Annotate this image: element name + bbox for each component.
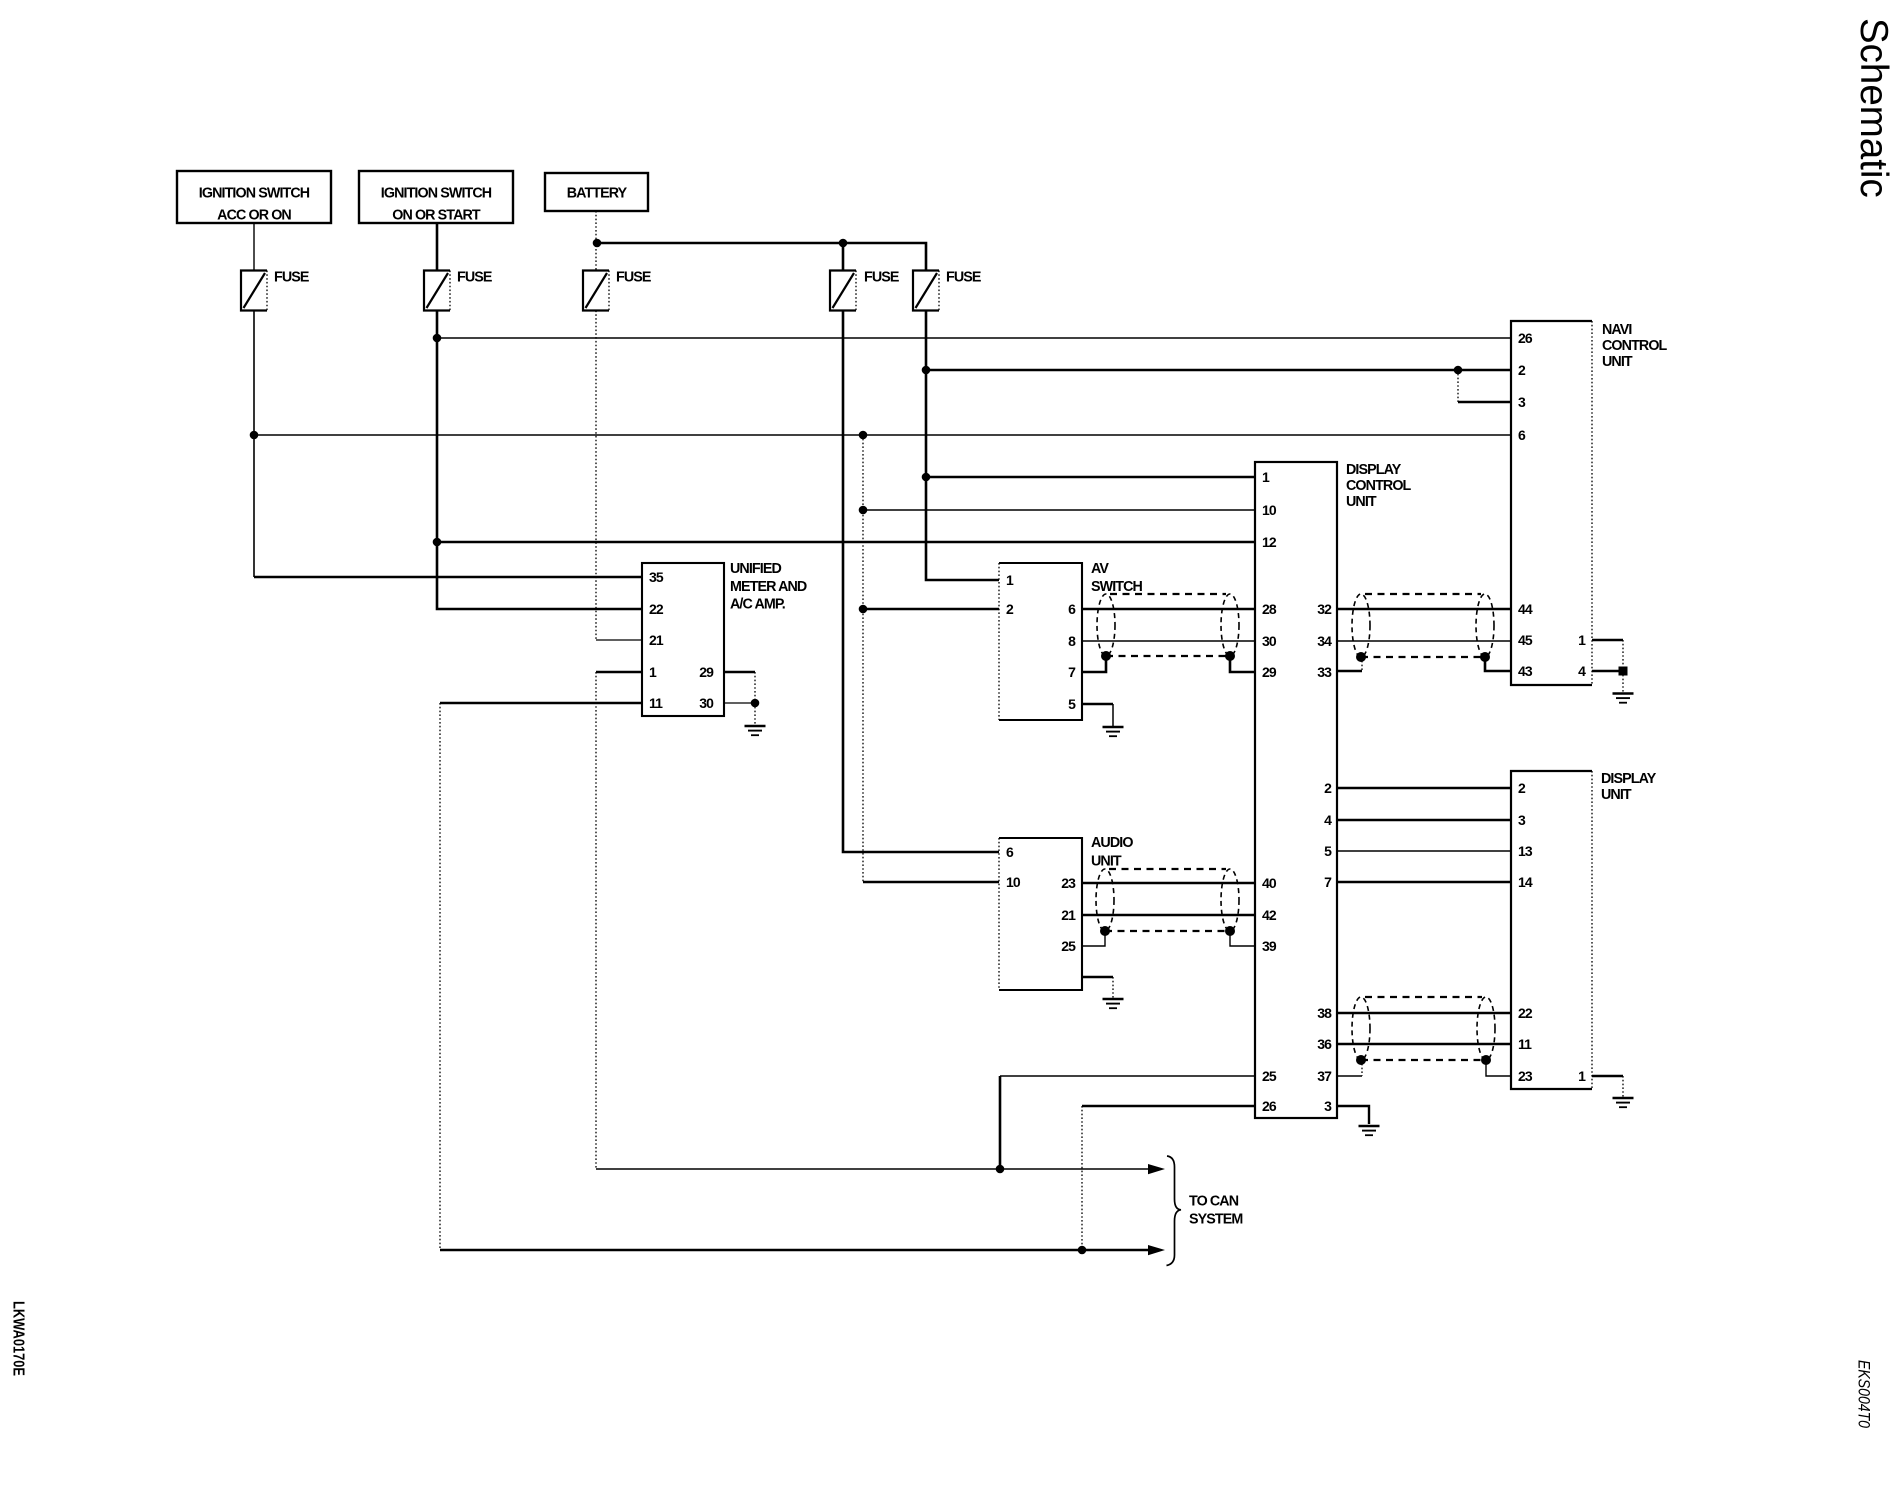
svg-text:44: 44 (1518, 601, 1533, 617)
wire: F3 battery output down x=596 (dotted) then right to UMA pin 21 (595, 311, 597, 641)
svg-text:11: 11 (649, 695, 663, 711)
svg-text:3: 3 (1518, 394, 1526, 410)
wire: AUDIO 21 to DCU 42 y=915 (1082, 914, 1255, 917)
svg-text:FUSE: FUSE (946, 269, 981, 285)
box: IGNITION SWITCH ACC OR ON (177, 171, 331, 224)
svg-text:2: 2 (1006, 601, 1014, 617)
svg-text:7: 7 (1324, 874, 1332, 890)
svg-text:LKWA0170E: LKWA0170E (10, 1301, 27, 1376)
ground: AUDIO UNIT (1103, 977, 1124, 1008)
wire: DCU 2 to DU 2 y=788 (1337, 787, 1511, 790)
svg-text:21: 21 (649, 632, 664, 648)
ground: NAVI CONTROL UNIT (1613, 671, 1634, 703)
wire: AV 8 to DCU 30 y=641 (1082, 640, 1255, 642)
fuse F2 (IGN ON) (424, 269, 492, 310)
wire: NAVI pin 4 to ground junction (1592, 670, 1623, 673)
junction: F2 feed / NAVI-26 line (437,338) (433, 334, 442, 343)
wire: net y=402 to NAVI pin 3 (1458, 401, 1511, 404)
box: AUDIO UNIT (999, 835, 1133, 990)
svg-text:29: 29 (699, 664, 714, 680)
arrow: CAN line 1 (1148, 1164, 1165, 1174)
ground: UMA (745, 703, 766, 735)
svg-text:34: 34 (1317, 633, 1332, 649)
label: TO CAN SYSTEM (1189, 1194, 1242, 1228)
svg-text:25: 25 (1061, 938, 1076, 954)
box: DISPLAY CONTROL UNIT (1255, 462, 1412, 1118)
junction: x=863 branch at NAVI-6 line (863,435) (859, 431, 868, 440)
wire: CAN line 2 y=1250 (440, 1249, 1150, 1252)
junction: battery bus at battery feed (597,243) (593, 239, 602, 248)
arrow: CAN line 2 (1148, 1245, 1165, 1255)
svg-text:4: 4 (1578, 663, 1586, 679)
wire: DCU pin 37 stub to shield drain (1337, 1075, 1362, 1077)
svg-text:12: 12 (1262, 534, 1277, 550)
box: NAVI CONTROL UNIT (1511, 321, 1668, 685)
wire: battery feed down to fuse F3 (dotted thin) (595, 211, 597, 271)
svg-text:32: 32 (1317, 601, 1332, 617)
svg-text:43: 43 (1518, 663, 1533, 679)
svg-text:14: 14 (1518, 874, 1533, 890)
wire: DCU pin 33 stub to shield drain (1337, 670, 1362, 673)
svg-text:ON OR START: ON OR START (392, 208, 481, 224)
wire: DCU 5 to DU 13 y=851 (1337, 850, 1511, 852)
wire: F2 output down x=437 then right to UMA pin 22 (437, 311, 642, 610)
wire: net y=370 F5 to NAVI pin 2 (926, 369, 1511, 372)
svg-text:1: 1 (1578, 632, 1586, 648)
wire: NAVI pin 43 from shield drain (1485, 657, 1511, 671)
svg-text:FUSE: FUSE (616, 269, 651, 285)
wire: DCU 38 to DU 22 y=1013 (1337, 1012, 1511, 1015)
svg-text:13: 13 (1518, 843, 1533, 859)
svg-text:23: 23 (1061, 875, 1076, 891)
svg-text:39: 39 (1262, 938, 1277, 954)
junction: DCU-25 drop on CAN line 1 (1000,1169) (996, 1165, 1005, 1174)
wire: AUDIO ground lead (1082, 976, 1113, 979)
box: UNIFIED METER AND A/C AMP. (642, 561, 807, 716)
svg-text:ACC OR ON: ACC OR ON (217, 208, 291, 224)
wire: AV pin 5 to ground (1082, 703, 1113, 706)
svg-text:AUDIO: AUDIO (1091, 835, 1133, 851)
wire: net y=435 F1 to NAVI pin 6 (254, 434, 1511, 436)
svg-text:FUSE: FUSE (457, 269, 492, 285)
wire: DCU 4 to DU 3 y=820 (1337, 819, 1511, 822)
svg-text:A/C AMP.: A/C AMP. (730, 597, 785, 613)
svg-text:25: 25 (1262, 1068, 1277, 1084)
svg-text:29: 29 (1262, 664, 1277, 680)
junction: F2 feed / DCU-12 line (437,542) (433, 538, 442, 547)
wire: net y=338 F2 to NAVI pin 26 (437, 337, 1511, 339)
wire: DU pin 1 to ground (1592, 1075, 1623, 1078)
junction: battery bus at fuse F4 drop (843,243) (839, 239, 848, 248)
wire: DCU pin 29 to shield drain (1230, 656, 1255, 672)
svg-text:SYSTEM: SYSTEM (1189, 1212, 1242, 1228)
junction: NAVI 1/4 ground (1623,671) (1619, 667, 1628, 676)
svg-text:45: 45 (1518, 632, 1533, 648)
wire: F1 output down x=254 then right to UMA pin 35 (253, 311, 255, 578)
svg-text:METER AND: METER AND (730, 579, 807, 595)
box: DISPLAY UNIT (1511, 771, 1657, 1089)
svg-text:FUSE: FUSE (274, 269, 309, 285)
svg-text:2: 2 (1518, 780, 1526, 796)
wire: DCU 32 to NAVI 44 y=609 (1337, 608, 1511, 611)
shield: AV SWITCH to DCU (pins 6,8 / 28,30) (1097, 594, 1239, 661)
box: IGNITION SWITCH ON OR START (359, 171, 513, 224)
shield: DCU to NAVI (pins 32,34 / 44,45) (1352, 594, 1494, 662)
wire: UMA pin 29 to ground elbow (724, 671, 755, 674)
svg-text:28: 28 (1262, 601, 1277, 617)
svg-text:3: 3 (1518, 812, 1526, 828)
svg-text:FUSE: FUSE (864, 269, 899, 285)
wire: IGN ON feed to fuse F2 (436, 223, 439, 271)
svg-text:10: 10 (1262, 502, 1277, 518)
fuse F4 (battery) (830, 269, 899, 310)
svg-text:8: 8 (1068, 633, 1076, 649)
wire: DCU pin 3 to ground (1337, 1106, 1369, 1124)
wire: AUDIO pin 25 to shield drain (1082, 931, 1105, 946)
wire: IGN ACC feed to fuse F1 (253, 223, 255, 271)
wire: NAVI pin 1 to ground elbow (1592, 639, 1623, 642)
svg-text:DISPLAY: DISPLAY (1601, 771, 1657, 787)
svg-text:10: 10 (1006, 874, 1021, 890)
wire: DCU pin 39 to shield drain (1230, 931, 1255, 946)
svg-text:AV: AV (1091, 561, 1109, 577)
ground: AV SWITCH (1112, 704, 1114, 727)
svg-text:33: 33 (1317, 664, 1332, 680)
svg-text:Schematic: Schematic (1852, 18, 1892, 198)
junction: x=863 branch at AV-2 line (863,609) (859, 605, 868, 614)
svg-text:40: 40 (1262, 875, 1277, 891)
svg-text:UNIT: UNIT (1601, 787, 1632, 803)
svg-text:1: 1 (1578, 1068, 1586, 1084)
shield: AUDIO UNIT to DCU (pins 23,21 / 40,42) (1096, 869, 1239, 936)
wire: F4 output down x=843 then right to AUDIO pin 6 (843, 311, 999, 853)
wire: dotted drop x=1458 to NAVI pin 3 line (1457, 370, 1459, 402)
svg-text:NAVI: NAVI (1602, 322, 1632, 338)
svg-text:SWITCH: SWITCH (1091, 579, 1143, 595)
svg-text:BATTERY: BATTERY (567, 186, 628, 202)
junction: F1 feed / NAVI-6 line (254,435) (250, 431, 259, 440)
wire: AV pin 7 to shield drain (1082, 656, 1106, 672)
brace: TO CAN SYSTEM (1167, 1156, 1182, 1266)
svg-text:2: 2 (1518, 362, 1526, 378)
svg-text:CONTROL: CONTROL (1602, 338, 1668, 354)
junction: DCU-26 drop on CAN line 2 (1082,1250) (1078, 1246, 1087, 1255)
wire: dotted branch x=863 down to AUDIO pin 10 (862, 435, 864, 882)
svg-text:CONTROL: CONTROL (1346, 478, 1412, 494)
ground: DISPLAY CONTROL UNIT (1359, 1126, 1380, 1135)
svg-text:11: 11 (1518, 1036, 1532, 1052)
wire: DCU pin 26 to CAN line 2 (dotted drop) (1082, 1105, 1255, 1108)
svg-text:1: 1 (1006, 572, 1014, 588)
svg-text:37: 37 (1317, 1068, 1332, 1084)
svg-text:42: 42 (1262, 907, 1277, 923)
svg-text:1: 1 (1262, 469, 1270, 485)
svg-text:7: 7 (1068, 664, 1076, 680)
shield: DCU to DISPLAY UNIT (pins 38,36 / 22,11) (1352, 997, 1495, 1065)
svg-text:UNIFIED: UNIFIED (730, 561, 781, 577)
wire: battery bus drop to fuse F4 (842, 243, 845, 271)
wire: DCU 7 to DU 14 y=882 (1337, 881, 1511, 884)
svg-text:5: 5 (1068, 696, 1076, 712)
svg-text:IGNITION SWITCH: IGNITION SWITCH (199, 186, 310, 202)
svg-text:5: 5 (1324, 843, 1332, 859)
svg-text:35: 35 (649, 569, 664, 585)
fuse F1 (IGN ACC) (241, 269, 309, 310)
svg-text:TO CAN: TO CAN (1189, 1194, 1239, 1210)
svg-text:22: 22 (649, 601, 664, 617)
svg-text:UNIT: UNIT (1602, 354, 1633, 370)
box: AV SWITCH (999, 561, 1143, 720)
svg-text:22: 22 (1518, 1005, 1533, 1021)
wire: F5 output down x=926 then right to AV SWITCH pin 1 (926, 311, 999, 581)
svg-text:30: 30 (1262, 633, 1277, 649)
junction: NAVI-2/3 branch (1458,370) (1454, 366, 1463, 375)
svg-text:21: 21 (1061, 907, 1076, 923)
fuse F5 (battery) (913, 269, 981, 310)
svg-text:EKS004T0: EKS004T0 (1855, 1360, 1873, 1429)
wire: AV pin 2 feed y=609 (863, 608, 999, 611)
wire: UMA pin 30 to ground junction (724, 702, 755, 704)
ground: DISPLAY UNIT (1613, 1076, 1634, 1107)
wire: DCU pin 25 to CAN line 1 (1000, 1075, 1255, 1077)
svg-text:26: 26 (1262, 1098, 1277, 1114)
svg-text:30: 30 (699, 695, 714, 711)
wire: UMA pin 1 left then down to CAN line 1 (596, 671, 642, 674)
junction: F5 feed / DCU-1 line (926,477) (922, 473, 931, 482)
junction: F5 feed / NAVI-2 line (926,370) (922, 366, 931, 375)
svg-text:UNIT: UNIT (1091, 854, 1122, 870)
wire: net y=477 F5 to DCU pin 1 (926, 476, 1255, 479)
wire: CAN line 1 y=1169 (596, 1168, 1150, 1170)
junction: UMA 29/30 ground (755,703) (751, 699, 760, 708)
svg-text:2: 2 (1324, 780, 1332, 796)
svg-text:6: 6 (1006, 844, 1014, 860)
svg-text:26: 26 (1518, 330, 1533, 346)
svg-text:36: 36 (1317, 1036, 1332, 1052)
wire: battery bus y=243 to fuse F5 (597, 243, 926, 271)
svg-text:IGNITION SWITCH: IGNITION SWITCH (381, 186, 492, 202)
svg-text:3: 3 (1324, 1098, 1332, 1114)
svg-text:23: 23 (1518, 1068, 1533, 1084)
svg-text:UNIT: UNIT (1346, 494, 1377, 510)
wire: DCU 36 to DU 11 y=1044 (1337, 1043, 1511, 1046)
wire: DU pin 23 from shield drain (1486, 1060, 1511, 1076)
svg-text:6: 6 (1068, 601, 1076, 617)
svg-text:DISPLAY: DISPLAY (1346, 462, 1402, 478)
wire: net y=510 x863-branch to DCU pin 10 (863, 509, 1255, 511)
wire: AUDIO 23 to DCU 40 y=883 (1082, 882, 1255, 885)
svg-text:38: 38 (1317, 1005, 1332, 1021)
wire: AV 6 to DCU 28 y=609 (1082, 608, 1255, 611)
box: BATTERY (545, 173, 648, 211)
wire: net y=542 F2 to DCU pin 12 (437, 541, 1255, 544)
svg-text:1: 1 (649, 664, 657, 680)
junction: x=863 branch at DCU-10 line (863,510) (859, 506, 868, 515)
wire: DCU 34 to NAVI 45 y=641 (1337, 640, 1511, 642)
svg-text:6: 6 (1518, 427, 1526, 443)
fuse F3 (battery) (583, 269, 651, 310)
wire: UMA pin 11 left then down to CAN line 2 (440, 702, 642, 705)
svg-text:4: 4 (1324, 812, 1332, 828)
